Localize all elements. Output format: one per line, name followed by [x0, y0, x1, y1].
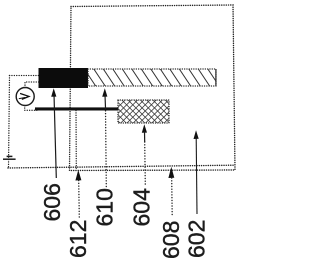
svg-text:608: 608 — [158, 221, 184, 259]
chamber box 602 (outer dotted rectangle) — [70, 5, 236, 171]
leader 608 (arrow to ground line) — [168, 167, 174, 216]
wire: from plate line down to box bottom (612 net) — [75, 111, 77, 170]
wire: source bottom stub to plate line — [25, 106, 38, 111]
RF source U1 (circle with arrow) — [16, 88, 34, 106]
svg-text:606: 606 — [39, 183, 65, 221]
wire B: source top stub to electrode 606 — [25, 82, 39, 88]
wire: left vertical from source loop down to ground line — [9, 76, 10, 169]
leader 602 (arrow into chamber) — [194, 130, 199, 214]
ground symbol — [3, 156, 16, 159]
leader 604 (arrow to cross-hatched rect) — [142, 124, 147, 185]
svg-text:602: 602 — [184, 220, 210, 258]
wire: bottom ground line (long horizontal) — [8, 165, 234, 168]
svg-text:604: 604 — [129, 188, 155, 227]
target layer 610 (diagonal hatched bar) — [83, 67, 221, 88]
substrate 604 (cross-hatched rectangle) — [94, 98, 196, 125]
leader 610 (arrow to hatched bar) — [102, 88, 107, 187]
leader 606 (arrow to black bar) — [51, 88, 56, 178]
svg-text:612: 612 — [65, 220, 91, 258]
arrow glyph inside source — [19, 94, 29, 100]
wire A: top horizontal into electrode 606 — [10, 75, 40, 77]
plate line (thick electrode line 612 feed) — [35, 107, 118, 110]
electrode 606 (solid black bar) — [39, 68, 89, 88]
leader 612 (arrow to box bottom line) — [75, 170, 81, 218]
svg-text:610: 610 — [92, 188, 118, 226]
